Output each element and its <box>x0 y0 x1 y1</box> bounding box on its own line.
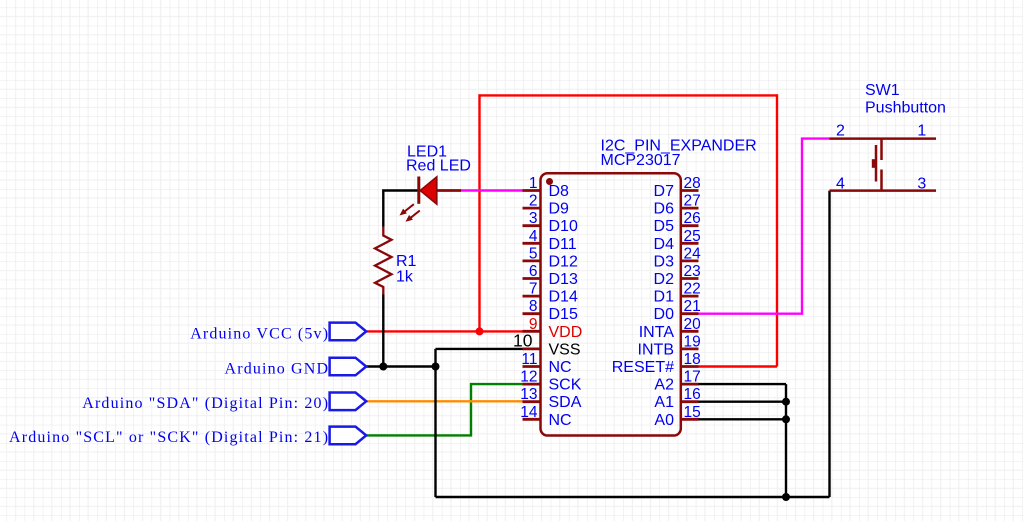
svg-text:SCK: SCK <box>549 377 582 394</box>
svg-text:MCP23017: MCP23017 <box>601 152 681 169</box>
wire: red horizontal into pin 18 RESET# <box>699 365 778 367</box>
IC pin 12 SCK (left) <box>520 369 581 394</box>
svg-text:D0: D0 <box>654 306 675 323</box>
connector/net flag: Arduino VCC (5v) <box>330 323 367 341</box>
IC pin 3 D10 (left) <box>523 210 578 235</box>
svg-text:NC: NC <box>549 412 572 429</box>
svg-text:INTA: INTA <box>639 324 675 341</box>
IC value label MCP23017 <box>601 152 681 169</box>
IC pin 26 D5 (right) <box>654 210 701 235</box>
junction: A0 <box>782 415 790 423</box>
IC pin 7 D14 (left) <box>523 281 578 306</box>
svg-text:17: 17 <box>684 369 701 386</box>
svg-text:D2: D2 <box>654 271 675 288</box>
IC pin 28 D7 (right) <box>654 175 701 200</box>
svg-text:28: 28 <box>684 175 701 192</box>
IC pin 18 RESET# (right) <box>612 351 701 376</box>
svg-text:D11: D11 <box>549 236 577 253</box>
IC pin 25 D4 (right) <box>654 228 701 253</box>
wire: red left vertical from top loop down to VDD line <box>478 94 480 331</box>
svg-text:27: 27 <box>684 193 701 210</box>
svg-text:A1: A1 <box>654 394 674 411</box>
wire: magenta LED anode to pin 1 D8 <box>461 189 524 191</box>
wire: black GND vertical riser <box>434 349 436 497</box>
IC pin 15 A0 (right) <box>654 404 700 429</box>
svg-text:D4: D4 <box>654 236 675 253</box>
svg-text:D13: D13 <box>549 271 578 288</box>
wire: orange Arduino SDA to pin 13 SDA <box>366 400 522 402</box>
switch SW1 pushbutton symbol <box>830 139 937 191</box>
svg-text:3: 3 <box>917 175 926 192</box>
op-amp/IC U1 I2C_PIN_EXPANDER MCP23017 body <box>541 173 681 435</box>
IC pin 16 A1 (right) <box>654 386 700 411</box>
IC pin 6 D13 (left) <box>523 263 578 288</box>
svg-text:5: 5 <box>529 245 538 262</box>
svg-text:14: 14 <box>520 404 538 421</box>
IC pin 1 D8 (left) <box>523 175 570 200</box>
svg-text:D3: D3 <box>654 253 675 270</box>
svg-text:25: 25 <box>684 228 701 245</box>
IC pin 4 D11 (left) <box>523 228 577 253</box>
svg-text:16: 16 <box>684 386 701 403</box>
net label Arduino VCC (5v) <box>190 325 329 342</box>
IC pin 14 NC (left) <box>520 404 571 429</box>
IC pin 11 NC (left) <box>521 351 571 376</box>
wire: green Arduino SCL to pin 12 SCK <box>366 384 522 435</box>
svg-text:D12: D12 <box>549 253 578 270</box>
wire: black GND to pin 10 VSS <box>436 348 523 350</box>
LED1 value label Red LED <box>406 158 471 175</box>
svg-text:23: 23 <box>684 263 701 280</box>
IC pin 5 D12 (left) <box>523 245 578 270</box>
junction: bottom bus <box>782 493 790 501</box>
svg-text:A2: A2 <box>654 377 674 394</box>
R1 value label 1k <box>396 268 414 285</box>
wire: red Arduino VCC to pin 9 VDD <box>366 330 522 332</box>
resistor R1 zigzag <box>375 227 392 295</box>
svg-text:A0: A0 <box>654 412 674 429</box>
junction: GND riser corner <box>432 363 440 371</box>
svg-text:6: 6 <box>529 263 538 280</box>
net label Arduino SDA (Digital Pin: 20) <box>82 395 329 412</box>
net label Arduino GND <box>225 360 330 377</box>
svg-text:1k: 1k <box>396 268 414 285</box>
svg-text:VDD: VDD <box>549 324 583 341</box>
svg-text:1: 1 <box>917 123 926 140</box>
svg-text:R1: R1 <box>396 253 417 270</box>
svg-text:3: 3 <box>529 210 538 227</box>
svg-text:18: 18 <box>684 351 701 368</box>
svg-text:D5: D5 <box>654 218 675 235</box>
svg-text:D7: D7 <box>654 183 675 200</box>
svg-text:2: 2 <box>529 193 538 210</box>
svg-text:Arduino "SDA" (Digital Pin: 20: Arduino "SDA" (Digital Pin: 20) <box>82 395 329 412</box>
IC pin 20 INTA (right) <box>639 316 701 341</box>
wire: black pin 17 A2 <box>699 383 787 385</box>
SW1 pin number 1 <box>917 123 926 140</box>
IC name label I2C_PIN_EXPANDER <box>601 138 757 155</box>
IC pin 22 D1 (right) <box>654 281 701 306</box>
svg-text:11: 11 <box>521 351 537 368</box>
svg-text:26: 26 <box>684 210 701 227</box>
IC pin 23 D2 (right) <box>654 263 701 288</box>
svg-text:13: 13 <box>520 386 537 403</box>
svg-text:D9: D9 <box>549 201 570 218</box>
svg-text:4: 4 <box>836 175 845 192</box>
IC pin 17 A2 (right) <box>654 369 700 394</box>
junction: GND at R1 <box>379 363 387 371</box>
IC pin 2 D9 (left) <box>523 193 570 218</box>
svg-text:2: 2 <box>836 123 845 140</box>
wire: black R1 bottom to GND line <box>382 295 384 367</box>
IC pin 10 VSS (left) <box>513 331 580 359</box>
SW1 reference label <box>865 82 900 99</box>
svg-text:D15: D15 <box>549 306 578 323</box>
wire: red net VCC top loop (horizontal top) <box>480 94 778 96</box>
IC pin 21 D0 (right) <box>654 298 701 323</box>
svg-text:Arduino GND: Arduino GND <box>225 360 330 377</box>
svg-text:21: 21 <box>684 298 701 315</box>
connector/net flag: Arduino GND <box>330 358 367 376</box>
SW1 pin number 3 <box>917 175 926 192</box>
svg-text:10: 10 <box>513 331 533 351</box>
svg-text:NC: NC <box>549 359 572 376</box>
LED1 reference label <box>407 143 447 160</box>
svg-text:12: 12 <box>520 369 537 386</box>
svg-text:D6: D6 <box>654 201 675 218</box>
svg-text:20: 20 <box>684 316 702 333</box>
LED1 emission arrows <box>400 204 420 222</box>
svg-text:8: 8 <box>529 298 538 315</box>
IC pin 8 D15 (left) <box>523 298 578 323</box>
svg-text:SW1: SW1 <box>865 82 900 99</box>
wire: black pin 16 A1 <box>699 401 787 403</box>
svg-text:D10: D10 <box>549 218 578 235</box>
LED D1 (LED1 Red LED) symbol <box>419 177 461 205</box>
svg-text:D8: D8 <box>549 183 570 200</box>
svg-text:1: 1 <box>529 175 538 192</box>
connector/net flag: Arduino SCL <box>330 427 367 445</box>
SW1 pin number 4 <box>836 175 845 192</box>
svg-text:RESET#: RESET# <box>612 359 674 376</box>
IC pin 27 D6 (right) <box>654 193 701 218</box>
wire: magenta pin 21 D0 to SW1 pin 2 <box>699 139 830 314</box>
wire: red net right vertical to RESET# <box>776 94 778 366</box>
svg-text:INTB: INTB <box>638 341 674 358</box>
svg-text:Arduino VCC (5v): Arduino VCC (5v) <box>190 325 329 342</box>
junction: A1 <box>782 398 790 406</box>
IC pin 9 VDD (left) <box>523 316 583 341</box>
wire: black riser to SW1 pin 4 <box>828 191 830 497</box>
svg-text:D1: D1 <box>654 289 675 306</box>
svg-text:15: 15 <box>684 404 701 421</box>
IC pin 24 D3 (right) <box>654 245 702 270</box>
svg-text:Red LED: Red LED <box>406 158 471 175</box>
svg-text:Pushbutton: Pushbutton <box>865 100 946 117</box>
SW1 pin number 2 <box>836 123 845 140</box>
IC pin 19 INTB (right) <box>638 333 701 358</box>
svg-text:SDA: SDA <box>549 394 582 411</box>
R1 reference label <box>396 253 417 270</box>
SW1 value label Pushbutton <box>865 100 946 117</box>
svg-text:Arduino "SCL" or "SCK" (Digita: Arduino "SCL" or "SCK" (Digital Pin: 21) <box>9 429 329 446</box>
svg-text:7: 7 <box>529 281 538 298</box>
wire: black pin 15 A0 <box>699 418 787 420</box>
wire: black Arduino GND horizontal <box>366 365 435 367</box>
IC pin 13 SDA (left) <box>520 386 581 411</box>
connector/net flag: Arduino SDA <box>330 393 367 411</box>
svg-text:4: 4 <box>529 228 538 245</box>
svg-text:19: 19 <box>684 333 701 350</box>
svg-text:22: 22 <box>684 281 701 298</box>
wire: black bottom bus <box>436 496 830 498</box>
svg-text:D14: D14 <box>549 289 578 306</box>
net label Arduino SCL or SCK (Digital Pin: 21) <box>9 429 329 446</box>
junction: red dot at VDD line <box>476 327 484 335</box>
svg-text:24: 24 <box>684 245 702 262</box>
wire: black A-pins vertical <box>785 384 787 497</box>
wire: black LED cathode to R1 top <box>383 191 417 227</box>
svg-text:VSS: VSS <box>549 341 581 358</box>
